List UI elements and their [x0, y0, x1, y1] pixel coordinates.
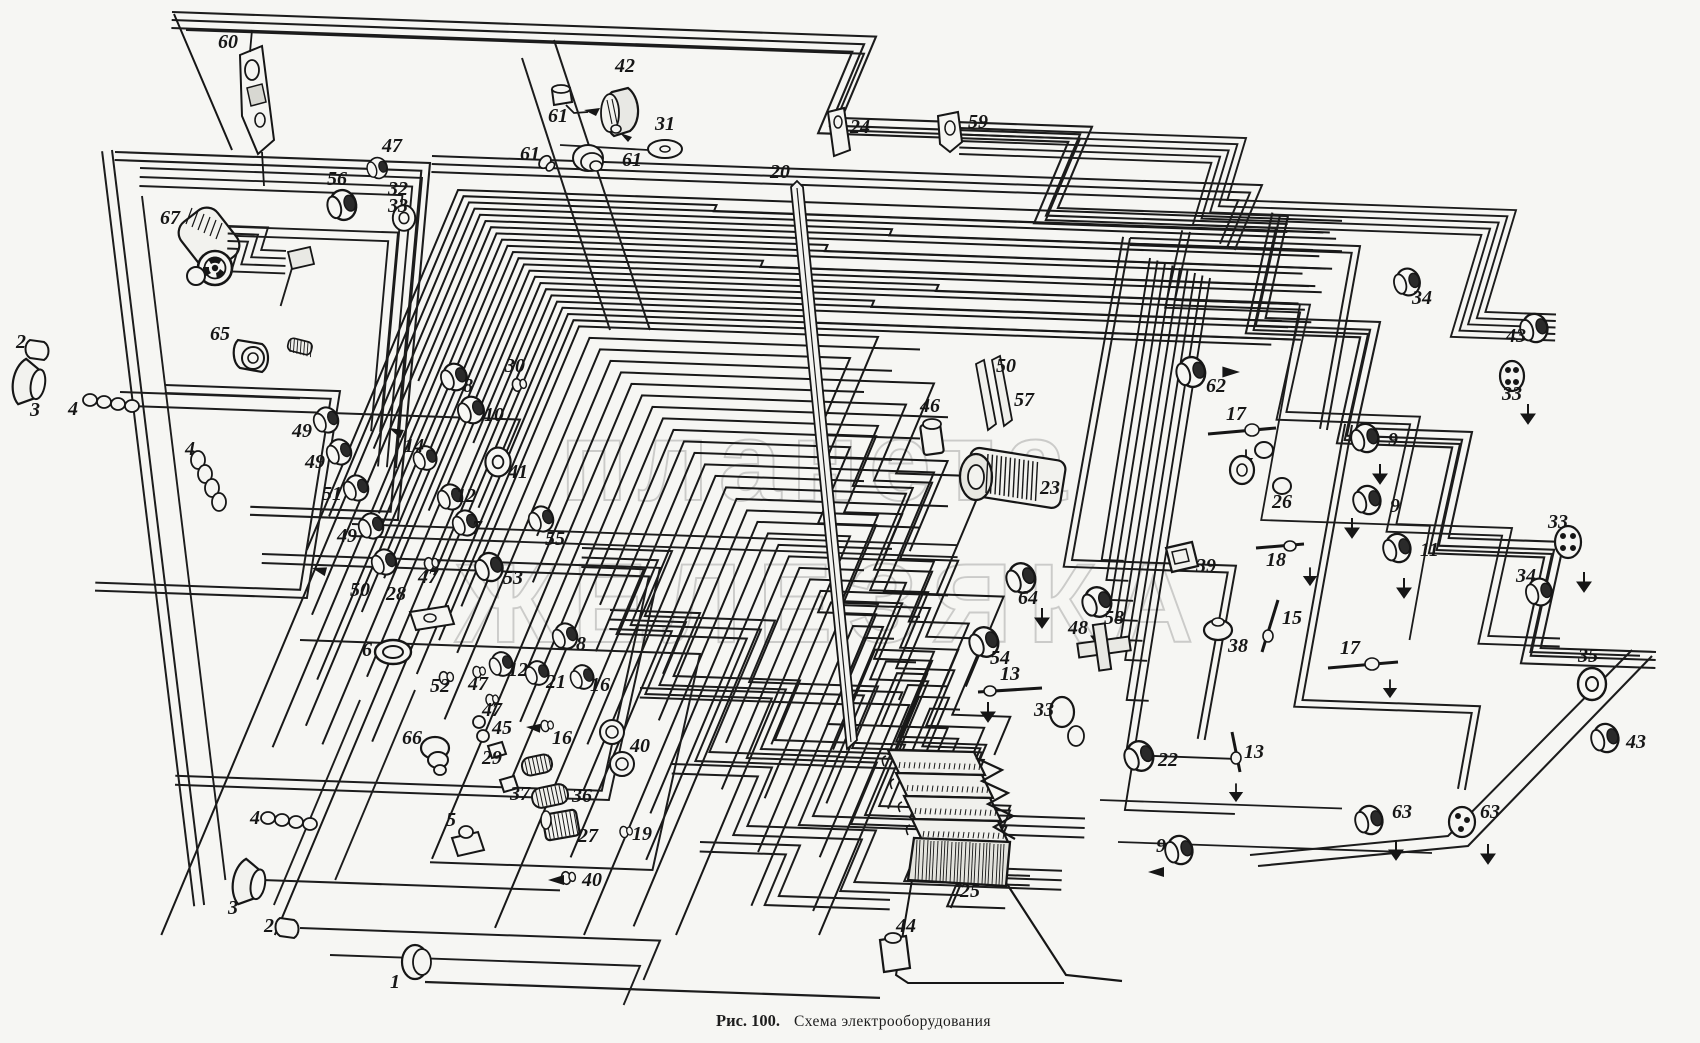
bulb 52 — [438, 670, 454, 685]
grommet 12 — [434, 481, 465, 513]
ground 58 — [1091, 626, 1105, 646]
svg-text:27: 27 — [577, 825, 599, 847]
grommet 53 — [471, 549, 506, 585]
svg-text:55: 55 — [545, 528, 565, 550]
connector block — [288, 247, 314, 269]
fuse chain 4b — [191, 451, 226, 511]
svg-text:15: 15 — [1282, 607, 1302, 629]
svg-text:28: 28 — [385, 583, 406, 605]
svg-text:40: 40 — [581, 869, 602, 891]
svg-text:34: 34 — [1411, 287, 1432, 309]
lens 31 — [648, 140, 682, 158]
svg-text:44: 44 — [895, 915, 916, 937]
wire bottom-right closure inner — [1250, 650, 1632, 855]
arrow near 14 — [387, 424, 404, 438]
grommet 49a — [310, 404, 341, 436]
svg-text:64: 64 — [1018, 587, 1038, 609]
lamp 42 — [601, 88, 638, 142]
connector 56 — [324, 187, 359, 223]
ground 13 — [981, 702, 995, 722]
svg-text:33: 33 — [1033, 699, 1054, 721]
ground 18 — [1304, 567, 1317, 585]
grommet 12b — [486, 649, 516, 679]
svg-text:51: 51 — [322, 483, 342, 505]
ground 17 — [1240, 449, 1253, 467]
svg-text:40: 40 — [629, 735, 650, 757]
grommet 62 — [1173, 354, 1208, 390]
grommet 8 — [437, 360, 470, 394]
svg-text:57: 57 — [1014, 389, 1035, 411]
svg-text:26: 26 — [1271, 491, 1292, 513]
bolt 61b — [537, 153, 558, 174]
wire left panel C — [175, 554, 660, 800]
svg-text:9: 9 — [1388, 429, 1398, 451]
ground 63b — [1481, 844, 1495, 864]
wire to 31 — [560, 145, 648, 150]
grommet 51 — [340, 472, 371, 504]
lamp 1 — [402, 945, 431, 979]
flasher 40 — [600, 720, 634, 776]
svg-text:16: 16 — [590, 674, 610, 696]
plate 57 — [976, 360, 996, 430]
fuse chain 4c — [261, 812, 317, 830]
lamp 61c — [573, 145, 603, 171]
wire panel edge slant b — [554, 40, 650, 330]
wire outer top boundary — [171, 12, 1288, 232]
wire lower staircase E — [700, 842, 890, 909]
svg-text:9: 9 — [1390, 495, 1400, 517]
svg-text:Рис. 100.: Рис. 100. — [716, 1011, 780, 1030]
sensor 38 — [1204, 618, 1232, 640]
ground 9a — [1373, 464, 1387, 484]
svg-text:34: 34 — [1515, 565, 1536, 587]
grommet 9c — [1162, 833, 1196, 868]
svg-text:4: 4 — [184, 438, 195, 460]
pilot 2b — [276, 918, 299, 938]
battery connectors zigzag — [976, 758, 1015, 839]
grommet 50 — [368, 546, 399, 578]
svg-text:22: 22 — [1157, 749, 1178, 771]
svg-text:3: 3 — [29, 399, 40, 421]
generator 23 — [960, 447, 1067, 509]
relay 44 — [880, 933, 910, 972]
grommet 6 — [375, 640, 411, 664]
svg-text:1: 1 — [390, 971, 400, 993]
grommet 63a — [1352, 803, 1386, 838]
horn 65 — [234, 340, 268, 372]
svg-text:61: 61 — [622, 149, 642, 171]
pin 13 — [978, 686, 1042, 696]
svg-text:10: 10 — [484, 404, 504, 426]
coil 46 — [920, 419, 944, 455]
ground 11 — [1397, 578, 1411, 598]
arrow 62 — [1222, 367, 1240, 378]
fuses 26 — [1230, 442, 1291, 494]
grommet 55 — [525, 503, 556, 535]
grommet 54 — [965, 623, 1002, 661]
switch 5 — [452, 826, 484, 856]
connector 32/33 — [393, 205, 415, 231]
svg-text:56: 56 — [327, 168, 347, 190]
wire right staircase inner — [1165, 230, 1560, 646]
pin 17 — [1208, 424, 1276, 436]
starter 67 — [173, 202, 245, 285]
svg-text:29: 29 — [481, 747, 502, 769]
wire bottom line 3 — [262, 880, 560, 890]
wire left panel B — [95, 385, 340, 598]
bulb 16b — [540, 719, 554, 732]
svg-text:21: 21 — [545, 671, 566, 693]
wire to 63b — [1118, 842, 1432, 853]
wire outer right staircase — [1246, 213, 1656, 668]
svg-text:19: 19 — [632, 823, 652, 845]
wire panel edge slant a — [522, 58, 610, 330]
grommet 58 — [1078, 583, 1115, 621]
wire right panel top edge — [1130, 238, 1360, 430]
grommet 21 — [522, 658, 552, 688]
wire bundle to right panel — [959, 128, 1556, 341]
regulator 36 — [530, 782, 569, 809]
wire far-left diagonal b — [142, 196, 225, 880]
svg-text:67: 67 — [160, 207, 181, 229]
wire inner top boundary — [186, 30, 1276, 228]
grommet 43a — [1517, 311, 1551, 346]
wire above band — [431, 156, 1262, 250]
svg-text:37: 37 — [509, 783, 531, 805]
bulb 47c — [423, 556, 439, 571]
wire from 67 bundle — [227, 226, 286, 273]
svg-text:35: 35 — [1577, 645, 1598, 667]
pin 17b — [1328, 658, 1398, 670]
ground 33c — [1521, 404, 1535, 424]
ground 64 — [1035, 608, 1049, 628]
svg-text:60: 60 — [218, 31, 238, 53]
svg-text:62: 62 — [1206, 375, 1226, 397]
wire right mid connector — [1175, 300, 1430, 640]
svg-text:Схема электрооборудования: Схема электрооборудования — [794, 1013, 991, 1030]
socket 66 — [421, 737, 449, 775]
svg-text:8: 8 — [463, 375, 473, 397]
arrow 40b — [548, 875, 564, 885]
svg-text:63: 63 — [1392, 801, 1412, 823]
grommet 10 — [454, 393, 487, 427]
wire fuse to center — [130, 406, 520, 470]
grommet 7 — [449, 507, 480, 539]
wire bottom line to 44 — [425, 982, 880, 998]
wire leg extra b — [335, 690, 415, 880]
arrow 9c — [1148, 867, 1164, 877]
wire to 63a — [1100, 800, 1342, 809]
svg-text:33: 33 — [387, 195, 408, 217]
svg-text:65: 65 — [210, 323, 230, 345]
ground 13b — [1230, 783, 1243, 801]
ground 9b — [1345, 518, 1359, 538]
svg-text:50: 50 — [996, 355, 1016, 377]
wire leg extra a — [274, 700, 360, 905]
wire right panel left edge — [1064, 237, 1236, 740]
svg-text:61: 61 — [520, 143, 540, 165]
svg-text:47: 47 — [467, 673, 489, 695]
wire from 67c — [281, 268, 292, 306]
wire inner right staircase outer — [1254, 228, 1640, 656]
svg-text:53: 53 — [503, 567, 523, 589]
svg-text:33: 33 — [1501, 383, 1522, 405]
svg-text:63: 63 — [1480, 801, 1500, 823]
grommet 49b — [323, 436, 354, 468]
wire bottom corner — [330, 955, 640, 1005]
connector 47 top — [365, 156, 390, 181]
wire far-left diagonal — [102, 150, 204, 906]
svg-text:17: 17 — [1340, 637, 1361, 659]
coil spring — [287, 337, 313, 357]
svg-text:42: 42 — [614, 55, 635, 77]
cube 29 — [488, 742, 506, 758]
bulb 19 — [619, 825, 633, 838]
watermark — [454, 399, 1209, 666]
plug 33d — [1555, 526, 1581, 558]
svg-text:33: 33 — [1547, 511, 1568, 533]
wire lamp stub — [120, 392, 300, 398]
breaker 33b — [1050, 697, 1084, 746]
svg-text:50: 50 — [350, 579, 370, 601]
pin 15 — [1262, 600, 1278, 652]
svg-text:43: 43 — [1625, 731, 1646, 753]
svg-text:7: 7 — [472, 517, 483, 539]
wire left panel D — [300, 640, 700, 870]
bulb 47e — [485, 693, 499, 706]
wire lower staircase A — [581, 548, 1085, 838]
plug 33c — [1500, 361, 1524, 391]
fuse chain 4 — [83, 394, 139, 412]
svg-text:49: 49 — [304, 451, 325, 473]
ground 63a — [1389, 840, 1403, 860]
headlamp 3b — [229, 857, 269, 908]
wire left panel A2 — [139, 168, 422, 468]
horn 35 — [1578, 668, 1606, 700]
cube 39 — [1166, 542, 1198, 572]
cube 37 — [500, 776, 518, 792]
wire bottom-right closure — [1258, 656, 1652, 866]
wire lower staircase C — [640, 688, 1030, 885]
svg-text:4: 4 — [249, 807, 260, 829]
svg-text:20: 20 — [769, 161, 790, 183]
svg-text:52: 52 — [430, 675, 450, 697]
svg-text:43: 43 — [1505, 325, 1526, 347]
grommet 16 — [567, 662, 597, 692]
svg-text:41: 41 — [507, 461, 528, 483]
grommet 9a — [1348, 421, 1382, 456]
bracket 60 — [174, 14, 274, 186]
bulb 47d — [472, 665, 486, 678]
grommet 22 — [1120, 737, 1157, 775]
wire left panel A — [115, 152, 430, 520]
chain 45 — [473, 716, 489, 742]
svg-text:12: 12 — [508, 659, 528, 681]
wire left panel A3 — [182, 225, 398, 432]
switch 28 — [410, 606, 454, 630]
svg-text:46: 46 — [919, 395, 940, 417]
svg-text:8: 8 — [576, 633, 586, 655]
svg-text:2: 2 — [15, 331, 26, 353]
svg-text:13: 13 — [1000, 663, 1020, 685]
svg-text:30: 30 — [504, 355, 525, 377]
ground 17b — [1384, 679, 1397, 697]
battery 25 — [882, 750, 1015, 886]
svg-text:25: 25 — [959, 880, 980, 902]
arrow near 49 — [311, 564, 327, 576]
svg-text:16: 16 — [552, 727, 572, 749]
svg-text:39: 39 — [1195, 555, 1216, 577]
wire lower staircase B — [609, 610, 1062, 890]
svg-text:3: 3 — [227, 897, 238, 919]
svg-text:23: 23 — [1039, 477, 1060, 499]
svg-text:13: 13 — [1244, 741, 1264, 763]
grommet 64 — [1002, 559, 1039, 597]
grommet 49c — [355, 510, 386, 542]
cap 61 — [552, 85, 572, 105]
pilot 2 — [26, 340, 49, 360]
svg-text:2: 2 — [263, 915, 274, 937]
resistor 37b — [520, 753, 553, 777]
relay 41 — [485, 448, 510, 477]
svg-text:9: 9 — [1156, 835, 1166, 857]
grommet 34b — [1523, 576, 1555, 609]
svg-text:49: 49 — [291, 420, 312, 442]
svg-text:47: 47 — [417, 566, 439, 588]
svg-text:5: 5 — [446, 809, 456, 831]
svg-text:4: 4 — [67, 398, 78, 420]
plug 63b — [1449, 807, 1475, 837]
svg-text:18: 18 — [1266, 549, 1286, 571]
wire right panel inner — [1294, 424, 1480, 790]
grommet 34a — [1391, 266, 1423, 299]
svg-text:45: 45 — [491, 717, 512, 739]
svg-text:36: 36 — [571, 785, 592, 807]
wire lower staircase D — [672, 764, 962, 895]
bulb 30 — [511, 377, 527, 392]
switch 59 — [938, 112, 962, 152]
grommet 43b — [1588, 721, 1622, 756]
svg-text:49: 49 — [336, 525, 357, 547]
svg-text:31: 31 — [654, 113, 675, 135]
ground 33d — [1577, 572, 1591, 592]
headlamp 3 — [9, 357, 49, 408]
svg-text:58: 58 — [1104, 607, 1124, 629]
lever 20 — [791, 181, 857, 749]
ground 61 — [584, 108, 600, 116]
grommet 14 — [410, 443, 440, 473]
battery front face — [908, 838, 1010, 886]
wire battery to right — [1007, 884, 1122, 981]
grommet 8b — [549, 620, 580, 652]
coil 27 — [541, 809, 580, 841]
svg-text:59: 59 — [968, 111, 988, 133]
wire long pair mid — [352, 524, 958, 557]
svg-text:14: 14 — [404, 435, 424, 457]
svg-text:66: 66 — [402, 727, 422, 749]
svg-text:24: 24 — [849, 116, 870, 138]
grommet 11 — [1380, 531, 1414, 566]
svg-text:6: 6 — [362, 639, 372, 661]
svg-text:47: 47 — [381, 135, 403, 157]
wire bottom line 2 — [300, 928, 660, 980]
svg-text:11: 11 — [1420, 539, 1439, 561]
svg-text:38: 38 — [1227, 635, 1248, 657]
distributor 48 — [1077, 623, 1130, 670]
grommet 9b — [1350, 483, 1384, 518]
arrow near 16 — [526, 723, 541, 733]
switch 24 — [828, 108, 850, 156]
pin 18 — [1256, 541, 1304, 551]
bulb 40b — [560, 870, 576, 885]
wire harness cascade — [161, 190, 1342, 935]
wire right column — [1102, 258, 1236, 814]
svg-text:61: 61 — [548, 105, 568, 127]
pin 13b — [1231, 732, 1241, 772]
svg-text:17: 17 — [1226, 403, 1247, 425]
svg-text:12: 12 — [456, 485, 476, 507]
svg-text:48: 48 — [1067, 617, 1088, 639]
